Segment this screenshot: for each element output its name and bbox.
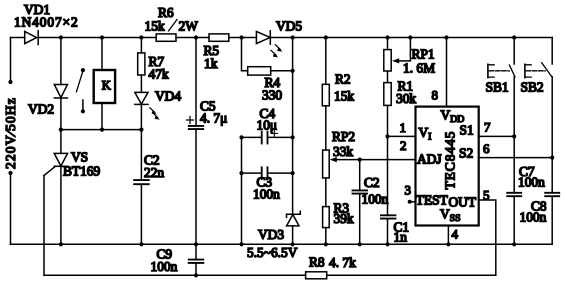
svg-text:10μ: 10μ [257,118,278,133]
node dot VD2 branch top [59,35,63,39]
svg-text:220V∕50Hz: 220V∕50Hz [3,97,18,169]
capacitor C1 [381,215,395,244]
LED VD4 [135,92,160,129]
svg-text:SB2: SB2 [521,80,544,95]
resistor R6 [156,34,176,41]
node dot A [239,35,243,39]
resistor R2 [322,38,329,151]
capacitor C4 [242,130,293,143]
potentiometer RP1 [384,38,411,83]
capacitor C7 [507,193,521,245]
wire top rail segment 2 [38,37,156,39]
svg-text:S1: S1 [460,123,474,138]
svg-text:1: 1 [400,120,407,135]
svg-text:VD4: VD4 [155,89,181,104]
svg-text:15k: 15k [145,19,165,34]
node dot R2 top [324,35,328,39]
capacitor C8 [545,193,559,245]
node dot RP1 top [385,35,389,39]
svg-text:VS: VS [71,150,88,165]
wire pin 5 [479,200,496,275]
junction dot C9 bottom [194,273,198,277]
svg-text:4. 7k: 4. 7k [329,255,356,270]
svg-text:K: K [102,78,111,92]
svg-text:1. 6M: 1. 6M [403,61,435,76]
wire R1 to C1 [387,136,389,215]
wire SB1 to C7 [513,136,515,192]
resistor R1 [384,83,391,137]
wire ground bus [11,243,553,245]
thyristor VS [44,130,68,245]
svg-text:100n: 100n [253,187,280,202]
svg-text:33k: 33k [333,144,353,159]
wire VS gate [43,176,45,276]
node dot SB1 top [512,35,516,39]
svg-text:1k: 1k [204,56,218,71]
wire top right corner [551,38,553,65]
wire node B down [292,38,294,215]
IC U1 TEC8445 [416,107,479,226]
svg-text:4: 4 [452,227,459,242]
wire pin1 [388,135,416,137]
wire node A down [242,38,248,71]
wire left rail lower [10,173,12,244]
svg-text:30k: 30k [396,91,416,106]
svg-text:5: 5 [483,188,490,203]
wire pin 8 [446,38,448,107]
svg-text:100n: 100n [520,210,547,225]
resistor R7 [138,38,145,93]
capacitor C9 [189,244,204,275]
svg-text:6: 6 [483,141,490,156]
zener diode VD3 [287,211,301,244]
junction dot [446,242,450,246]
diode VD1 [25,31,39,45]
junction dot wiper C2 [358,158,362,162]
svg-text:1n: 1n [394,230,408,245]
diode VD2 [54,38,67,130]
wire bottom gate line [44,274,306,276]
pushbutton SB2 [525,63,552,158]
svg-text:RP2: RP2 [332,129,355,144]
wire pin 6 [479,157,553,159]
svg-text:VD5: VD5 [276,19,302,34]
svg-text:OUT: OUT [449,195,477,210]
resistor R3 [323,207,330,245]
svg-text:7: 7 [484,120,491,135]
test point pin 3 [408,200,416,204]
svg-text:C2: C2 [364,175,380,190]
junction dot [358,242,362,246]
junction dot [100,128,104,132]
junction dot [239,135,243,139]
junction dot [59,242,63,246]
resistor R5 [209,34,229,41]
node dot C5 top [194,35,198,39]
junction dot [239,242,243,246]
LED VD5 [256,31,282,58]
svg-text:S2: S2 [459,146,473,161]
junction dot [291,135,295,139]
capacitor C3 [242,167,293,179]
potentiometer RP2 [323,150,416,207]
junction dot pin7 [512,134,516,138]
node dot K branch top [100,35,104,39]
junction dot [139,242,143,246]
svg-text:3: 3 [405,183,412,198]
svg-text:1N4007×2: 1N4007×2 [14,15,79,30]
wire SB2 to C8 [551,158,553,193]
pushbutton SB1 [488,38,515,137]
wire top rail segment 5 [270,37,552,39]
junction dot pin6 [550,156,554,160]
svg-text:22n: 22n [144,165,164,180]
junction dot [291,242,295,246]
junction dot [512,242,516,246]
node dot pin8 top [444,35,448,39]
svg-text:47k: 47k [149,67,169,82]
junction dot [239,171,243,175]
junction dot [59,128,63,132]
terminal dot lower [8,171,12,175]
capacitor C2 22n [134,130,149,245]
junction dot pin1 [385,134,389,138]
svg-text:BT169: BT169 [63,164,101,179]
svg-text:100n: 100n [362,192,389,207]
svg-text:100n: 100n [518,175,545,190]
wire top rail left segment [11,37,25,39]
svg-text:TEC8445: TEC8445 [443,131,458,190]
wire bottom to OUT [327,274,496,276]
resistor R4 [248,67,293,75]
svg-text:R8: R8 [309,255,325,270]
svg-text:VD2: VD2 [28,102,54,117]
junction dot [291,171,295,175]
relay coil K [94,38,115,130]
node dot B [291,35,295,39]
terminal dot upper [8,80,12,84]
capacitor C2 100n [353,160,368,245]
wire pin 4 [447,226,449,245]
svg-text:2W: 2W [179,19,199,34]
resistor R8 [306,272,327,279]
wire top rail segment 3 [176,37,209,39]
capacitor C5 [187,38,204,245]
wire C4C3 left rail [241,137,243,244]
svg-text:R2: R2 [335,72,351,87]
relay contact K [76,68,85,113]
svg-text:RP1: RP1 [412,47,435,62]
svg-text:2: 2 [400,138,407,153]
svg-text:TEST: TEST [416,193,448,208]
svg-text:SB1: SB1 [486,80,509,95]
junction dot [291,69,295,73]
junction dot [385,242,389,246]
wire node y130 [61,129,141,131]
wire pin 7 [479,135,515,137]
svg-text:ADJ: ADJ [417,152,442,167]
svg-text:4. 7μ: 4. 7μ [200,111,227,126]
svg-text:8: 8 [432,88,439,103]
wire left rail upper [10,38,12,83]
svg-text:VD3: VD3 [258,227,284,242]
junction dot [324,242,328,246]
svg-text:100n: 100n [151,259,178,274]
junction dot [194,242,198,246]
node dot RP1 wiper top [408,35,412,39]
wire top rail segment 4 [229,37,257,39]
svg-text:39k: 39k [334,211,354,226]
svg-text:5.5~6.5V: 5.5~6.5V [247,245,298,260]
svg-text:15k: 15k [334,89,354,104]
node dot R7 branch top [139,35,143,39]
svg-text:330: 330 [262,88,282,103]
junction dot [139,128,143,132]
